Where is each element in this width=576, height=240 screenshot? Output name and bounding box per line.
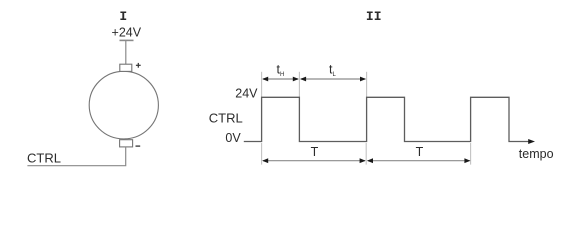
top extension line at first rising edge bbox=[261, 72, 263, 97]
svg-text:CTRL: CTRL bbox=[209, 111, 243, 126]
bottom extension line at second rising edge bbox=[365, 143, 367, 165]
svg-text:T: T bbox=[311, 145, 319, 159]
motor M1 body bbox=[89, 71, 158, 139]
wire supply rail to motor plus terminal bbox=[125, 40, 127, 64]
wire motor minus terminal to CTRL input bbox=[27, 147, 125, 166]
top extension line at first falling edge bbox=[298, 72, 300, 97]
time axis arrowhead bbox=[528, 139, 535, 144]
minus polarity mark bbox=[136, 145, 141, 147]
+24V power rail bar bbox=[120, 39, 134, 41]
bottom extension line at first rising edge bbox=[261, 143, 263, 165]
svg-text:I: I bbox=[119, 9, 127, 24]
plus polarity mark bbox=[136, 63, 141, 68]
svg-text:+24V: +24V bbox=[112, 26, 142, 40]
CTRL waveform trace bbox=[244, 97, 532, 141]
svg-text:CTRL: CTRL bbox=[27, 150, 61, 165]
T period dimension arrow 2 bbox=[367, 158, 471, 163]
bottom extension line at third rising edge bbox=[470, 143, 472, 165]
motor minus terminal box bbox=[120, 140, 133, 147]
tL dimension arrow bbox=[300, 77, 366, 82]
top extension line at second rising edge bbox=[366, 72, 368, 97]
tH dimension arrow bbox=[262, 77, 299, 82]
T period dimension arrow 1 bbox=[262, 158, 366, 163]
svg-text:T: T bbox=[416, 145, 424, 159]
svg-text:0V: 0V bbox=[225, 131, 241, 145]
svg-text:24V: 24V bbox=[235, 87, 258, 101]
svg-text:II: II bbox=[366, 9, 382, 24]
svg-text:tempo: tempo bbox=[519, 147, 554, 161]
motor plus terminal box bbox=[120, 64, 132, 71]
